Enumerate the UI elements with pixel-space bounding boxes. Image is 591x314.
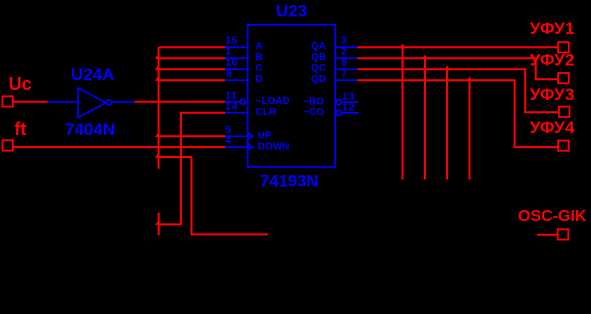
svg-text:QC: QC	[311, 63, 326, 74]
svg-text:4: 4	[225, 135, 231, 147]
svg-text:A: A	[256, 41, 263, 52]
svg-text:74193N: 74193N	[260, 171, 318, 190]
svg-text:~LOAD: ~LOAD	[256, 96, 290, 107]
svg-text:14: 14	[225, 100, 238, 112]
svg-text:CLR: CLR	[256, 107, 277, 118]
svg-text:7404N: 7404N	[65, 120, 115, 139]
svg-text:~CO: ~CO	[303, 107, 324, 118]
svg-text:ft: ft	[14, 119, 26, 139]
svg-text:9: 9	[226, 68, 232, 80]
svg-text:12: 12	[342, 102, 355, 114]
svg-text:Uc: Uc	[9, 74, 32, 94]
svg-text:B: B	[256, 52, 263, 63]
svg-text:QA: QA	[311, 41, 326, 52]
svg-text:УФУ1: УФУ1	[530, 19, 575, 38]
svg-text:~BO: ~BO	[303, 97, 324, 108]
svg-text:УФУ3: УФУ3	[530, 85, 575, 104]
svg-text:7: 7	[341, 68, 347, 80]
svg-text:УФУ2: УФУ2	[530, 51, 575, 70]
svg-text:D: D	[256, 74, 263, 85]
svg-text:UP: UP	[258, 131, 272, 142]
svg-text:QB: QB	[311, 52, 326, 63]
svg-text:QD: QD	[311, 74, 326, 85]
svg-text:DOWN: DOWN	[258, 141, 290, 152]
svg-text:OSC-GIK: OSC-GIK	[518, 208, 587, 225]
svg-text:U23: U23	[276, 2, 307, 21]
svg-text:U24A: U24A	[71, 65, 114, 84]
svg-text:УФУ4: УФУ4	[530, 118, 575, 137]
svg-text:C: C	[256, 63, 263, 74]
